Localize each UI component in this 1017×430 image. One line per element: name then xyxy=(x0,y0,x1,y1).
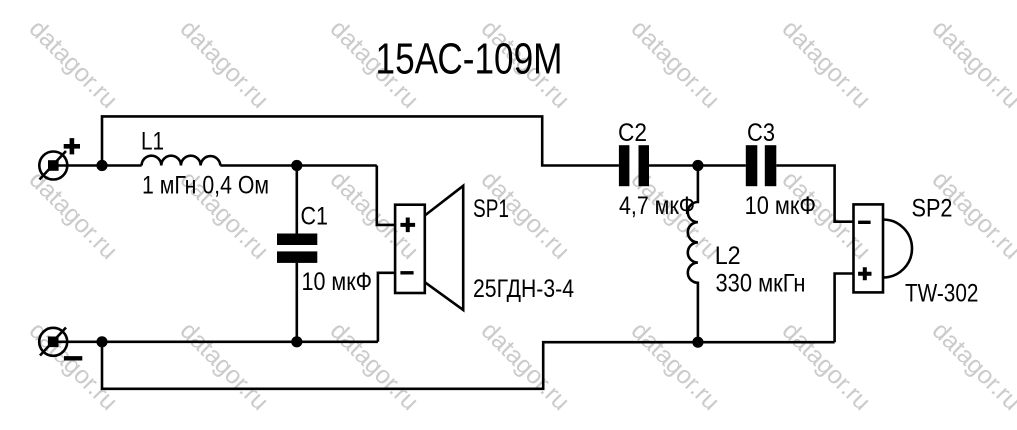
node junction C1 bottom xyxy=(291,336,302,347)
node junction C1 top xyxy=(291,160,302,171)
wire SP1 plus feed xyxy=(377,166,395,225)
wire C1 top lead xyxy=(295,166,298,234)
wire L1 to SP1 drop xyxy=(220,164,376,167)
capacitor C2 xyxy=(619,145,649,186)
node junction L2 top xyxy=(692,160,703,171)
svg-text:TW-302: TW-302 xyxy=(905,279,978,307)
svg-text:10 мкФ: 10 мкФ xyxy=(745,192,816,220)
capacitor C3 xyxy=(746,145,777,186)
svg-text:4,7 мкФ: 4,7 мкФ xyxy=(619,192,695,220)
wire C3 to SP2 drop xyxy=(776,166,853,222)
svg-text:C1: C1 xyxy=(301,203,329,231)
inductor L2 xyxy=(688,166,698,343)
terminal minus input xyxy=(39,328,82,359)
wire bottom left rail xyxy=(57,340,378,343)
capacitor C1 xyxy=(277,234,317,263)
wire SP1 minus feed xyxy=(378,273,395,342)
svg-text:C2: C2 xyxy=(618,119,647,147)
svg-text:25ГДН-3-4: 25ГДН-3-4 xyxy=(473,275,574,303)
terminal plus input xyxy=(39,138,80,179)
SP1 minus mark xyxy=(400,271,413,274)
svg-text:10 мкФ: 10 мкФ xyxy=(302,268,373,296)
wire C1 bottom lead xyxy=(295,263,298,342)
node junction at input minus xyxy=(96,336,107,347)
speaker SP1 cone xyxy=(425,186,463,310)
svg-text:330 мкГн: 330 мкГн xyxy=(716,270,806,298)
node junction at input plus xyxy=(96,160,107,171)
node junction L2 bottom xyxy=(692,337,703,348)
SP1 plus mark xyxy=(400,218,415,233)
wire top rail riser and run xyxy=(102,116,619,165)
svg-text:15АС-109М: 15АС-109М xyxy=(376,34,563,83)
SP2 minus mark xyxy=(858,221,871,224)
svg-text:L2: L2 xyxy=(715,242,741,270)
wire C2 to C3 xyxy=(649,164,746,167)
speaker SP1 box xyxy=(395,205,425,293)
speaker SP2 box xyxy=(854,204,884,292)
inductor L1 xyxy=(142,156,221,166)
wire SP2 plus feed xyxy=(835,274,854,343)
svg-text:SP1: SP1 xyxy=(473,195,509,223)
svg-text:SP2: SP2 xyxy=(912,194,953,222)
svg-text:C3: C3 xyxy=(747,119,775,147)
wire plus terminal to L1 xyxy=(57,164,142,167)
SP2 plus mark xyxy=(858,267,871,280)
wire bottom detour rail xyxy=(102,342,835,389)
speaker SP2 dome xyxy=(883,220,912,278)
svg-text:1 мГн 0,4 Ом: 1 мГн 0,4 Ом xyxy=(142,172,269,200)
svg-text:L1: L1 xyxy=(141,128,164,156)
